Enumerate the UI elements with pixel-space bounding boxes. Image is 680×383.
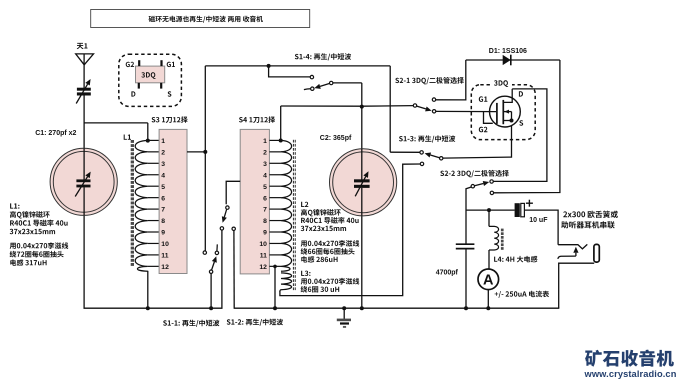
transistor U1 body 3DQ xyxy=(136,66,165,83)
svg-text:4: 4 xyxy=(263,172,267,179)
svg-text:10: 10 xyxy=(161,241,169,248)
antenna ANT1 xyxy=(76,54,94,65)
wire jack sleeve to bus xyxy=(559,263,595,308)
inductor L1 label xyxy=(124,135,131,140)
svg-text:3: 3 xyxy=(263,161,267,168)
switch S1-3 label xyxy=(399,135,455,142)
title box xyxy=(91,10,310,28)
capacitor C1 270pf xyxy=(50,148,117,215)
switch S4 label xyxy=(239,116,275,123)
svg-text:10: 10 xyxy=(259,241,267,248)
diode D1 1SS106 xyxy=(503,55,511,65)
capacitor C4 10uF xyxy=(515,203,520,217)
antenna ANT1 label 天1 xyxy=(77,43,88,49)
svg-text:C1: 270pf x2: C1: 270pf x2 xyxy=(35,130,76,137)
inductor L3 winding xyxy=(280,273,292,292)
wire S3 wiper vertical xyxy=(204,66,206,251)
inductor L2 spec text xyxy=(301,202,308,207)
transistor U2 dual-gate MOSFET xyxy=(490,96,521,127)
svg-text:12: 12 xyxy=(161,264,169,271)
svg-text:6: 6 xyxy=(263,195,267,202)
node B junction xyxy=(360,105,364,109)
wire S4 taps to L2 xyxy=(269,140,281,266)
wire S1-2 to right bus xyxy=(233,231,235,308)
transistor U1 package outline xyxy=(119,54,182,106)
switch S2-2 xyxy=(490,180,493,183)
wire D1 cathode down to S2-2 xyxy=(494,60,560,193)
switch S1-1 xyxy=(203,251,206,254)
jack J1 open contact wire xyxy=(558,256,576,259)
meter M1 250uA xyxy=(478,269,499,290)
svg-text:4700pf: 4700pf xyxy=(436,270,459,277)
wire left ground bus xyxy=(84,307,223,309)
svg-text:8: 8 xyxy=(161,218,165,225)
switch S1-3 xyxy=(420,151,423,154)
wire S1-3 to MOSFET source xyxy=(443,121,512,158)
earphone note text xyxy=(563,211,618,218)
switch S1-4 label xyxy=(295,53,351,60)
wire output node xyxy=(466,209,515,211)
wire node B down to C2 xyxy=(361,107,363,180)
switch S1-2 label xyxy=(227,319,283,326)
wire gate G2 xyxy=(484,112,493,124)
svg-text:8: 8 xyxy=(263,218,267,225)
wire S4 wiper xyxy=(226,181,240,204)
capacitor C3 4700pf xyxy=(456,243,475,245)
wire node A to L1 top xyxy=(84,122,148,124)
pin D internal xyxy=(503,89,512,103)
transistor U1 pins xyxy=(138,60,140,66)
svg-text:4: 4 xyxy=(161,172,165,179)
inductor L4 4H xyxy=(488,210,490,226)
svg-text:2: 2 xyxy=(161,149,165,156)
wire right ground bus xyxy=(234,307,560,309)
svg-text:3: 3 xyxy=(161,161,165,168)
svg-text:5: 5 xyxy=(161,184,165,191)
wire S1-4 to node B xyxy=(333,82,362,84)
inductor L1 core xyxy=(131,140,134,266)
wire MOSFET drain to S2-2 xyxy=(493,89,547,181)
inductor L4 label xyxy=(494,256,537,263)
wire through C1 xyxy=(83,148,85,179)
wire antenna to trimmer and C1 xyxy=(83,95,85,179)
jack J1 tip contact xyxy=(558,244,587,249)
switch S1-1 label xyxy=(163,320,219,327)
switch S3 1-pole 12-throw xyxy=(159,129,187,273)
transistor U2 pin labels xyxy=(479,96,488,102)
svg-text:D1: 1SS106: D1: 1SS106 xyxy=(489,48,527,55)
wire 10uF to jack xyxy=(524,210,558,245)
switch S2-1 xyxy=(413,104,416,107)
inductor L4 core xyxy=(501,229,504,250)
inductor L2 L3 core xyxy=(293,140,296,290)
transistor U1 pin labels xyxy=(126,62,134,67)
wire gate G1 xyxy=(436,110,496,112)
svg-text:11: 11 xyxy=(260,253,267,260)
trimmer capacitor xyxy=(77,88,91,91)
svg-text:12: 12 xyxy=(259,264,267,271)
crystalradio logo text xyxy=(585,350,674,367)
pin S internal with bulk arrow xyxy=(504,111,512,113)
wire S1-2 to left bus xyxy=(221,230,223,309)
wire L1 bottom to ground bus xyxy=(147,271,149,309)
switch S1-4 xyxy=(269,66,311,77)
svg-text:A: A xyxy=(483,273,494,289)
transistor U2 label 3DQ xyxy=(492,79,513,87)
switch S2-1 label xyxy=(395,77,464,84)
wire top S1-4 feed xyxy=(205,65,390,67)
svg-text:10 uF: 10 uF xyxy=(529,217,548,224)
jack J1 switch arrow xyxy=(575,253,577,256)
switch S4 1-pole 12-throw xyxy=(240,129,269,274)
inductor L1 winding xyxy=(135,140,148,271)
svg-text:9: 9 xyxy=(263,230,267,237)
inductor L1 spec text xyxy=(10,203,19,208)
jack J1 plug xyxy=(594,244,599,262)
svg-text:7: 7 xyxy=(263,207,267,214)
svg-text:1: 1 xyxy=(161,138,165,145)
wire S3 wiper to node xyxy=(187,151,205,153)
svg-text:C2: 365pf: C2: 365pf xyxy=(320,135,352,142)
switch S1-2 xyxy=(226,206,229,209)
svg-text:6: 6 xyxy=(161,195,165,202)
wire S4 pin12 to ground bus xyxy=(274,266,276,308)
wire meter to bus xyxy=(487,290,489,309)
svg-text:1: 1 xyxy=(263,138,267,145)
svg-text:7: 7 xyxy=(161,207,165,214)
wire through C2 xyxy=(361,149,363,180)
transistor U2 package outline xyxy=(471,85,535,140)
switch S3 label xyxy=(152,116,188,123)
wire L1 taps to S3 xyxy=(148,140,159,266)
wire node B to S2-1 xyxy=(362,105,413,108)
svg-text:11: 11 xyxy=(161,253,168,260)
wire D1 top xyxy=(466,59,560,61)
inductor L2 winding xyxy=(281,140,292,271)
svg-text:9: 9 xyxy=(161,230,165,237)
wire S2-1 to D1 anode xyxy=(436,60,466,100)
wire L3 bottom to S1-3 xyxy=(280,164,421,296)
ground xyxy=(342,306,346,310)
svg-text:5: 5 xyxy=(263,184,267,191)
capacitor C2 365pf xyxy=(330,149,397,216)
wire node B to L2 top xyxy=(281,105,362,107)
wire S2-2 common down xyxy=(466,187,471,244)
switch S2-2 label xyxy=(440,170,509,177)
meter M1 label xyxy=(495,291,549,298)
inductor L3 spec text xyxy=(301,271,310,276)
svg-text:www.crystalradio.cn: www.crystalradio.cn xyxy=(584,369,677,379)
wire S1-1 to left bus xyxy=(210,273,212,308)
svg-text:2: 2 xyxy=(263,149,267,156)
